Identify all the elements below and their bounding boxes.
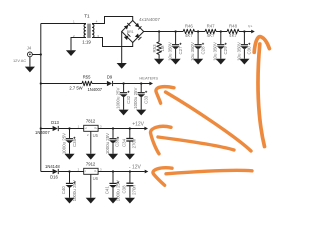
svg-text:R53: R53 <box>152 44 157 53</box>
svg-text:C27: C27 <box>178 46 183 55</box>
svg-text:1000u 25V: 1000u 25V <box>72 180 77 201</box>
svg-text:U6: U6 <box>93 176 99 181</box>
svg-text:D9: D9 <box>107 74 113 79</box>
svg-text:T1: T1 <box>84 14 90 19</box>
svg-text:R55: R55 <box>83 74 91 79</box>
svg-text:R46: R46 <box>185 24 194 29</box>
svg-text:1000u 25V: 1000u 25V <box>115 180 120 201</box>
svg-text:C32: C32 <box>126 95 131 104</box>
svg-text:10u 350V: 10u 350V <box>167 42 172 61</box>
svg-text:4K7: 4K7 <box>229 33 237 38</box>
svg-text:C41: C41 <box>105 186 110 195</box>
svg-text:D13: D13 <box>51 120 59 125</box>
svg-text:O-: O- <box>94 170 97 173</box>
svg-text:7812: 7812 <box>86 119 96 124</box>
svg-text:1:19: 1:19 <box>82 40 91 45</box>
svg-text:10u 350V: 10u 350V <box>190 42 195 61</box>
svg-text:C34: C34 <box>121 138 126 147</box>
svg-text:HEATERS: HEATERS <box>139 76 158 81</box>
svg-text:U5: U5 <box>93 133 99 138</box>
svg-text:R47: R47 <box>207 24 216 29</box>
svg-text:C35: C35 <box>72 138 77 147</box>
svg-text:1M: 1M <box>160 45 165 51</box>
svg-text:V+: V+ <box>248 25 252 29</box>
svg-text:C29: C29 <box>223 46 228 55</box>
svg-text:C38: C38 <box>121 185 126 194</box>
svg-text:C28: C28 <box>200 46 205 55</box>
svg-text:C30: C30 <box>247 46 252 55</box>
svg-text:4x1N4007: 4x1N4007 <box>139 17 160 22</box>
svg-text:7912: 7912 <box>86 162 96 167</box>
svg-text:4K7: 4K7 <box>185 33 193 38</box>
svg-text:10u 350V: 10u 350V <box>236 42 241 61</box>
svg-text:4K7: 4K7 <box>207 33 215 38</box>
svg-text:C40: C40 <box>61 186 66 195</box>
svg-text:270n: 270n <box>131 138 136 148</box>
svg-text:10u 350V: 10u 350V <box>213 42 218 61</box>
svg-text:BR1: BR1 <box>127 30 134 34</box>
svg-text:1N4007: 1N4007 <box>35 130 50 135</box>
svg-text:+I: +I <box>85 127 87 130</box>
svg-text:- 12V: - 12V <box>129 165 142 171</box>
svg-text:12V AC: 12V AC <box>13 58 26 63</box>
svg-text:1000u 25V: 1000u 25V <box>61 133 66 154</box>
svg-text:2.7 5W: 2.7 5W <box>69 85 82 90</box>
svg-text:270n: 270n <box>132 185 137 195</box>
svg-text:J4: J4 <box>27 46 32 51</box>
svg-text:1N4148: 1N4148 <box>45 164 60 169</box>
svg-text:D16: D16 <box>50 175 58 180</box>
svg-text:1000u 25V: 1000u 25V <box>105 133 110 154</box>
svg-text:C33: C33 <box>143 95 148 104</box>
svg-text:1000u 25V: 1000u 25V <box>133 88 138 109</box>
svg-text:+12V: +12V <box>132 121 144 127</box>
svg-text:C36: C36 <box>115 138 120 147</box>
svg-text:1000u 25V: 1000u 25V <box>115 88 120 109</box>
svg-text:1N4007: 1N4007 <box>87 87 102 92</box>
svg-text:R48: R48 <box>229 24 238 29</box>
